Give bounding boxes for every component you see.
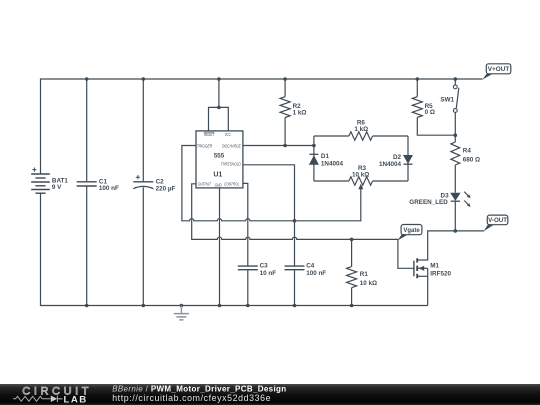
svg-text:IRF520: IRF520 bbox=[430, 270, 451, 277]
svg-text:C4: C4 bbox=[306, 263, 315, 270]
svg-text:D2: D2 bbox=[393, 154, 402, 161]
svg-text:RESET: RESET bbox=[204, 132, 216, 137]
svg-text:555: 555 bbox=[214, 152, 225, 159]
svg-text:THRESHOLD: THRESHOLD bbox=[221, 162, 241, 167]
svg-text:U1: U1 bbox=[213, 172, 222, 179]
svg-text:OUTPUT: OUTPUT bbox=[198, 181, 212, 186]
svg-text:220 µF: 220 µF bbox=[156, 185, 176, 192]
svg-text:10 kΩ: 10 kΩ bbox=[352, 172, 369, 179]
svg-text:M1: M1 bbox=[430, 262, 439, 269]
svg-text:GND: GND bbox=[215, 182, 222, 187]
svg-text:1N4004: 1N4004 bbox=[321, 160, 344, 167]
svg-text:1 kΩ: 1 kΩ bbox=[293, 110, 307, 117]
svg-text:1 kΩ: 1 kΩ bbox=[354, 126, 368, 133]
svg-text:TRIGGER: TRIGGER bbox=[197, 143, 213, 148]
svg-text:LAB: LAB bbox=[64, 394, 88, 405]
svg-text:1N4004: 1N4004 bbox=[379, 161, 402, 168]
svg-text:V+OUT: V+OUT bbox=[488, 66, 510, 73]
svg-text:R4: R4 bbox=[463, 147, 472, 154]
svg-text:680 Ω: 680 Ω bbox=[463, 156, 480, 163]
svg-text:0 Ω: 0 Ω bbox=[425, 109, 435, 116]
svg-text:100 nF: 100 nF bbox=[306, 270, 326, 277]
svg-text:D1: D1 bbox=[321, 153, 330, 160]
svg-text:9 V: 9 V bbox=[52, 184, 62, 191]
svg-text:10 nF: 10 nF bbox=[260, 270, 277, 277]
svg-text:100 nF: 100 nF bbox=[99, 185, 119, 192]
svg-text:C3: C3 bbox=[260, 263, 269, 270]
svg-text:R1: R1 bbox=[360, 271, 369, 278]
svg-text:http://circuitlab.com/cfeyx52d: http://circuitlab.com/cfeyx52dd336e bbox=[112, 393, 271, 403]
svg-text:CONTROL: CONTROL bbox=[224, 181, 240, 186]
svg-text:DISCHARGE: DISCHARGE bbox=[222, 143, 241, 148]
svg-text:Vgate: Vgate bbox=[403, 228, 420, 234]
svg-text:GREEN_LED: GREEN_LED bbox=[409, 199, 448, 206]
svg-text:10 kΩ: 10 kΩ bbox=[360, 280, 377, 287]
svg-text:SW1: SW1 bbox=[440, 97, 454, 104]
svg-text:VCC: VCC bbox=[225, 132, 232, 137]
svg-text:V-OUT: V-OUT bbox=[488, 217, 507, 224]
